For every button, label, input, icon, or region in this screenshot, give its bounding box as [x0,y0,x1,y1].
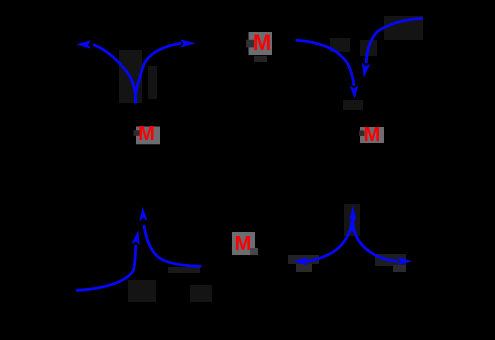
label mask box for = before M1 [246,40,254,48]
label mask box M3 (right) [360,127,384,143]
curved arrow BR-left (tail at stem, head points left) [306,222,352,262]
arrowhead BL-2 [132,230,140,245]
wire BR stem [351,219,354,231]
arrowhead BR-right [397,257,412,265]
ghost notch right of M4 [250,248,258,255]
dark notch left of M3 [359,131,365,137]
curved arrow BL-2 (tail lower left, head points up) [77,246,136,290]
arrowhead BR-up (apex of bottom-right Y) [349,206,356,220]
ghost mask boxes BL [128,267,212,302]
arrowhead BL-1 [139,207,147,221]
label mask box M4 (bottom) [232,232,255,255]
ghost mask boxes TR [330,16,423,110]
ghost mask box TL stem [119,50,157,103]
curved arrow TL-right (tail at stem bottom, head points right) [135,43,180,102]
arrowhead TL-left [76,40,91,48]
arrowhead TR-a [350,85,358,99]
ghost mask box under =M [254,56,267,62]
arrowhead TL-right [180,39,195,47]
curved arrow TL-left (tail at stem bottom, head points left) [94,45,136,102]
metal label M3 (right) [364,125,381,145]
curved arrow TR-a (tail left, head points down) [297,40,354,84]
dark notch left of M2 [134,130,140,136]
ghost mask boxes BR [288,204,406,272]
metal label M4 (bottom center) [235,234,252,254]
curved arrow BR-right (tail at stem, head points right) [353,222,397,262]
metal label M2 (left) [138,124,155,144]
metal label M1 (top center) [253,32,271,54]
arrowhead BR-left [294,257,308,265]
label mask box M2 (left) [136,127,160,145]
label mask box M1 (top, with = sign) [249,32,273,55]
arrowhead TR-b [362,63,370,78]
curved arrow TR-b (tail upper right, head points down) [366,18,421,62]
curved arrow BL-1 (tail right, head points up) [144,226,200,266]
